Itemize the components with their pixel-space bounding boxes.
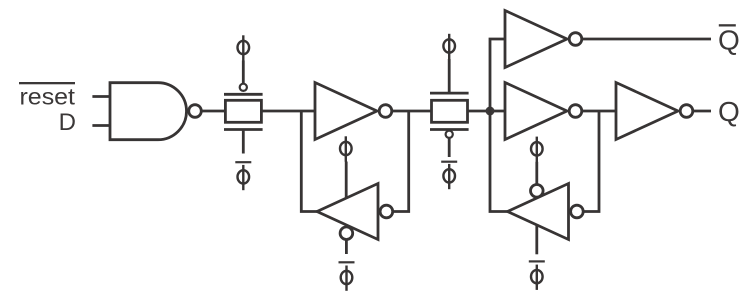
tristate feedback inverter I2 xyxy=(317,184,393,240)
clock phi-bar label TG2 bottom xyxy=(441,161,457,190)
wire phi to TG1 top gate xyxy=(242,61,245,84)
wire U1 output to TG1 xyxy=(201,110,226,113)
wire TG2 bottom gate to phi-bar xyxy=(448,138,451,157)
wire I1 output to TG2 xyxy=(392,110,433,113)
clock phi-bar label stage 1 feedback xyxy=(339,261,355,291)
inverter I1 xyxy=(315,83,392,140)
tristate feedback inverter I5 xyxy=(508,184,584,240)
transmission gate TG2 xyxy=(430,93,469,138)
wire I6 output to Q xyxy=(693,110,711,113)
wire TG1 bottom gate to phi-bar xyxy=(242,131,245,154)
clock phi label stage 2 feedback xyxy=(531,137,543,162)
label Qbar xyxy=(718,24,740,55)
clock phi-bar label stage 2 feedback xyxy=(529,260,545,290)
wire feedback left stage 2 xyxy=(490,111,508,212)
clock phi label stage 1 feedback xyxy=(340,136,352,161)
clock phi label TG1 top xyxy=(238,35,250,60)
wire phi to feedback inverter I2 xyxy=(345,162,348,199)
inverter I4 xyxy=(505,83,582,140)
wire TG1 to inverter I1 xyxy=(261,110,316,113)
NAND gate U1 xyxy=(110,83,201,140)
label reset (active-low) xyxy=(19,82,76,110)
node X junction dot xyxy=(486,107,495,116)
wire phi to TG2 top gate xyxy=(448,59,451,92)
svg-text:D: D xyxy=(59,109,76,136)
svg-text:Q: Q xyxy=(718,24,740,55)
wire I3 output to Qbar xyxy=(582,38,711,41)
clock phi-bar label TG1 bottom xyxy=(235,161,251,190)
wire phi to feedback inverter I5 enable bubble xyxy=(535,162,538,185)
clock phi label TG2 top xyxy=(443,34,455,59)
wire reset input xyxy=(92,95,111,98)
wire TG2 to node X xyxy=(468,110,507,113)
wire feedback right stage 2 xyxy=(583,111,599,212)
wire feedback left stage 1 xyxy=(301,111,317,212)
wire node X up to inverter I3 xyxy=(490,39,506,111)
wire D input xyxy=(92,124,111,127)
wire feedback right stage 1 xyxy=(392,111,409,212)
transmission gate TG1 xyxy=(224,84,263,130)
svg-text:reset: reset xyxy=(20,84,76,110)
wire I4 output to inverter I6 xyxy=(582,110,617,113)
inverter I6 (Q driver) xyxy=(616,83,693,140)
svg-text:Q: Q xyxy=(718,96,740,127)
wire I5 to phi-bar xyxy=(535,224,538,254)
inverter I3 (Qbar driver) xyxy=(505,11,582,68)
wire I2 enable bubble to phi-bar xyxy=(345,240,348,255)
